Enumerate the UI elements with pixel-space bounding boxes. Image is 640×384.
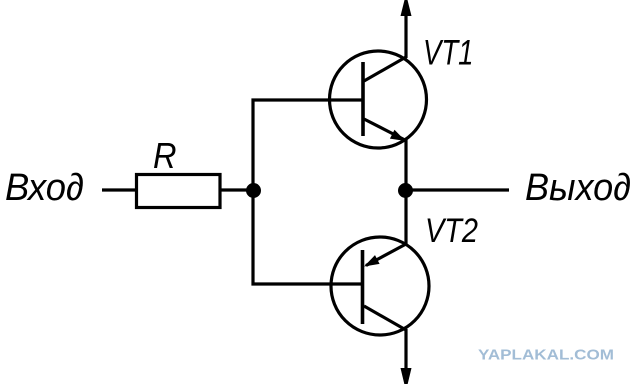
svg-text:VT2: VT2 xyxy=(425,212,478,250)
power arrow up (positive rail) xyxy=(401,0,412,16)
wire node B to VT2 emitter xyxy=(404,190,407,245)
wire node B to output xyxy=(406,188,509,191)
transistor VT2 body circle xyxy=(331,237,429,335)
transistor VT1 body circle xyxy=(330,51,427,148)
transistor VT1 base bar xyxy=(361,62,365,136)
transistor VT1 collector lead xyxy=(364,12,406,81)
wire input to resistor xyxy=(102,188,136,191)
svg-text:VT1: VT1 xyxy=(423,34,474,73)
svg-text:R: R xyxy=(153,135,177,176)
svg-text:Выхо∂: Выхо∂ xyxy=(525,167,631,209)
svg-text:YAPLAKAL.COM: YAPLAKAL.COM xyxy=(478,347,614,364)
wire resistor to node A xyxy=(220,188,253,191)
transistor VT2 emitter arrow xyxy=(364,255,380,266)
wire base bus: VT1 base lead, left vertical, VT2 base lead xyxy=(253,100,362,284)
transistor VT1 emitter lead xyxy=(364,119,404,140)
node A junction dot xyxy=(246,183,261,198)
transistor VT1 emitter arrow xyxy=(390,130,406,141)
transistor VT2 emitter lead xyxy=(366,244,406,266)
power arrow down (negative rail) xyxy=(401,368,412,384)
node B junction dot xyxy=(398,183,413,198)
transistor VT2 collector lead xyxy=(364,306,406,369)
resistor R xyxy=(137,175,221,208)
transistor VT2 base bar xyxy=(361,250,365,324)
svg-text:Вхо∂: Вхо∂ xyxy=(5,167,84,209)
wire VT1 emitter to node B xyxy=(404,139,407,191)
